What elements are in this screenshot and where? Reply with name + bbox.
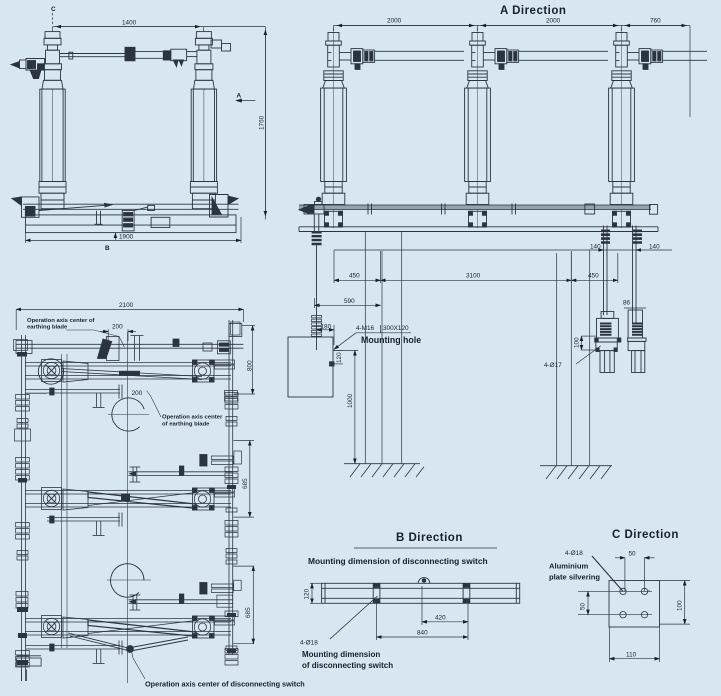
svg-text:685: 685	[242, 478, 249, 489]
phase 1 link rod	[61, 369, 202, 377]
arm rods column3	[663, 50, 708, 52]
svg-text:685: 685	[245, 607, 252, 618]
phase 3 blade	[88, 620, 195, 636]
phase 2 assembly	[16, 488, 238, 540]
dome tab	[418, 578, 430, 584]
extra right-edge fittings	[217, 322, 241, 651]
ground symbol right	[540, 466, 612, 479]
earthing blade folded (phase1)	[97, 339, 111, 359]
dim 100 right	[660, 581, 691, 625]
insulator column 2	[190, 32, 217, 209]
insulator column 1	[39, 32, 66, 209]
svg-text:300X120: 300X120	[383, 325, 409, 332]
svg-text:Mounting dimension: Mounting dimension	[302, 650, 380, 659]
phase 3 diagonal links	[68, 633, 188, 652]
svg-text:Mounting dimension of disconne: Mounting dimension of disconnecting swit…	[308, 556, 488, 566]
column 3	[609, 28, 663, 228]
svg-text:200: 200	[132, 390, 143, 397]
right 4-017 unit	[628, 310, 642, 338]
dim 200 top	[100, 324, 136, 347]
rotation circle 2	[107, 564, 151, 597]
svg-text:Operation axis center: Operation axis center	[162, 415, 223, 421]
column 1	[321, 28, 375, 228]
svg-text:4-Ø18: 4-Ø18	[565, 550, 583, 557]
right earthing bracket	[210, 195, 229, 218]
dim 140 140	[334, 244, 672, 284]
dim 420	[422, 586, 468, 640]
svg-text:100: 100	[574, 337, 581, 348]
bottom left rail	[17, 646, 47, 682]
svg-text:earthing blade: earthing blade	[27, 325, 68, 331]
svg-text:3100: 3100	[466, 273, 481, 280]
counterweight / earthing contact left	[11, 59, 45, 79]
base frame	[12, 195, 239, 233]
svg-text:of earthing blade: of earthing blade	[162, 422, 210, 428]
dim 180	[317, 323, 335, 345]
label operation axis earthing blade top	[27, 318, 124, 347]
svg-text:2000: 2000	[546, 18, 561, 25]
dim 1000 vertical	[333, 350, 358, 463]
dim 50 left	[580, 591, 589, 614]
holes	[578, 588, 652, 618]
dim 590	[315, 298, 381, 308]
svg-text:of disconnecting switch: of disconnecting switch	[302, 661, 393, 670]
support legs left	[364, 232, 366, 464]
dim 800	[234, 326, 255, 395]
svg-text:C Direction: C Direction	[612, 529, 679, 541]
svg-text:590: 590	[344, 298, 355, 305]
svg-text:120: 120	[304, 588, 311, 599]
leader to hole	[592, 556, 623, 591]
svg-text:1900: 1900	[119, 233, 134, 240]
svg-text:2000: 2000	[387, 18, 402, 25]
phase1 centre pillar housing	[107, 337, 120, 361]
arm rods column1	[375, 50, 465, 52]
svg-text:86: 86	[623, 300, 631, 307]
phase1 lower rail left extension	[25, 390, 47, 394]
drop pin	[96, 211, 98, 225]
svg-text:1760: 1760	[259, 115, 266, 130]
ground symbol left	[344, 464, 424, 477]
phase 1 studs up	[134, 336, 136, 361]
dim 840	[377, 603, 469, 640]
svg-text:420: 420	[435, 614, 446, 621]
column3 drop rods	[595, 226, 646, 373]
earthing mechanism at column1 left	[299, 197, 324, 350]
blade arm	[60, 40, 231, 67]
svg-text:840: 840	[417, 630, 428, 637]
top dimensions 2000 2000 760	[334, 18, 691, 118]
dim 685 mid	[234, 441, 255, 517]
left 4-017 unit: cap, housing, ribs, band, body, post	[601, 312, 614, 319]
svg-text:B: B	[105, 245, 110, 252]
view marker C	[51, 6, 56, 25]
label operation axis earthing blade mid	[147, 391, 223, 428]
left earthing bracket	[12, 197, 22, 206]
dim 86 / 200	[623, 300, 646, 309]
svg-text:100: 100	[677, 600, 684, 611]
rod end fittings right	[585, 204, 595, 214]
svg-text:Aluminium: Aluminium	[549, 562, 588, 571]
svg-text:Operation axis center of disco: Operation axis center of disconnecting s…	[145, 680, 305, 689]
svg-text:plate silvering: plate silvering	[549, 573, 600, 582]
top earthing rail	[16, 324, 243, 354]
phase 3 assembly	[16, 616, 238, 668]
dim 685 bottom	[233, 566, 255, 644]
rotation circle 1	[108, 398, 149, 431]
phase 2 lower stacks	[17, 549, 237, 565]
svg-text:Mounting hole: Mounting hole	[361, 335, 421, 345]
svg-text:200: 200	[112, 324, 123, 331]
svg-text:760: 760	[650, 18, 661, 25]
svg-text:Operation axis center of: Operation axis center of	[27, 318, 94, 324]
svg-text:120: 120	[336, 352, 343, 363]
label operation axis disconnecting switch bottom	[131, 649, 305, 689]
svg-text:180: 180	[321, 323, 332, 330]
dimension 1400	[53, 20, 266, 32]
dimension 1900	[26, 217, 242, 243]
right edge box mid	[234, 451, 242, 464]
rod bellows above control box	[312, 316, 322, 337]
dimension 1760	[259, 27, 266, 220]
svg-text:1000: 1000	[347, 393, 354, 408]
svg-text:A Direction: A Direction	[500, 5, 566, 17]
control box	[288, 337, 334, 397]
svg-text:50: 50	[580, 602, 587, 610]
beam	[322, 578, 520, 604]
base beam	[299, 226, 658, 228]
dim 2100	[16, 302, 243, 330]
svg-text:4-Ø17: 4-Ø17	[544, 362, 562, 369]
dim 450 3100 450	[334, 251, 618, 283]
dim 110 bottom	[610, 627, 660, 662]
arm rods column2	[519, 50, 609, 52]
dim 50 top	[615, 551, 655, 592]
svg-text:4-Ø18: 4-Ø18	[300, 640, 318, 647]
mounting plate	[609, 581, 660, 628]
label 4-018 mounting	[300, 596, 393, 670]
dim 120 vertical	[333, 350, 343, 364]
small box	[151, 217, 170, 227]
support legs right	[556, 253, 558, 466]
svg-text:140: 140	[649, 244, 660, 251]
centre pin assembly	[122, 211, 134, 231]
svg-text:B Direction: B Direction	[396, 532, 463, 544]
column 2	[465, 28, 519, 228]
labels 4-M16 300X120 Mounting hole	[334, 325, 421, 349]
svg-text:110: 110	[626, 651, 637, 658]
svg-text:450: 450	[349, 273, 360, 280]
svg-text:50: 50	[629, 551, 637, 558]
phase 2 blade	[88, 492, 195, 508]
phase 1 assembly	[16, 360, 238, 412]
svg-text:A: A	[237, 93, 242, 100]
svg-text:140: 140	[590, 244, 601, 251]
dim 120	[304, 583, 322, 603]
dim 100 vertical	[574, 336, 598, 350]
svg-text:C: C	[51, 6, 56, 13]
frame edges	[21, 335, 23, 681]
label 4-017	[544, 346, 601, 369]
interphase operating rod (thick grey)	[299, 205, 651, 210]
extra left-edge fittings	[14, 340, 31, 609]
svg-text:800: 800	[247, 360, 254, 371]
svg-text:2100: 2100	[119, 302, 134, 309]
left edge dark bolt clusters	[17, 352, 236, 665]
phase 1 lower stacks	[17, 417, 237, 429]
svg-text:1400: 1400	[122, 20, 137, 27]
view marker A	[236, 93, 255, 101]
